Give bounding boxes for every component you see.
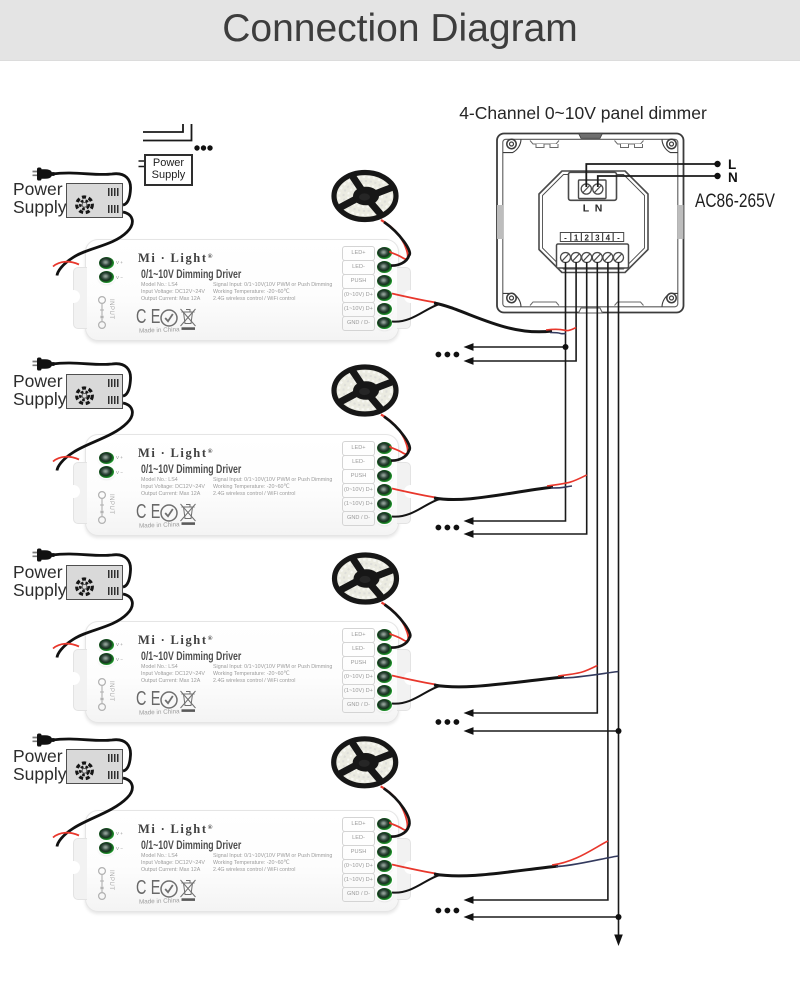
terminal V+ — [99, 828, 114, 840]
dimming driver LS4 #1 — [85, 239, 399, 341]
power supply PS2 body — [66, 374, 123, 409]
terminal LED+ — [377, 442, 392, 454]
mains cord 2 — [52, 363, 131, 396]
mounting tab left — [73, 838, 87, 900]
branch row4 gnd — [472, 916, 619, 918]
input icon — [92, 295, 122, 331]
terminal (1~10V) D+ — [377, 685, 392, 697]
wire minus-right — [618, 262, 620, 937]
LED strip reel 2 — [334, 367, 396, 414]
terminal V- — [99, 842, 114, 854]
mounting tab left — [73, 267, 87, 329]
certification icons — [160, 501, 210, 527]
dimming driver LS4 #2 — [85, 434, 399, 536]
wire ch2 — [472, 262, 587, 534]
arrow row3 b — [464, 727, 474, 735]
label (1~10V) D+ — [342, 497, 375, 512]
power supply PS2 label — [13, 373, 123, 408]
label LED+ — [342, 246, 375, 261]
label (1~10V) D+ — [342, 873, 375, 888]
spec text right — [213, 477, 332, 498]
channel label strip — [560, 233, 623, 242]
terminal V- — [99, 653, 114, 665]
spec text left — [141, 664, 205, 685]
signal gnd tip 1 — [550, 333, 566, 334]
arrowhead down — [614, 935, 623, 947]
terminal V- — [99, 271, 114, 283]
mounting tab left — [73, 649, 87, 711]
mains cord 1 — [52, 173, 131, 205]
signal red tip 3 — [558, 666, 597, 677]
dc cord 1 — [57, 212, 132, 276]
junction row4 — [616, 914, 622, 920]
terminal (1~10V) D+ — [377, 303, 392, 315]
CE mark — [136, 688, 161, 711]
panel top connector tab — [579, 133, 603, 138]
arrow row4 b — [464, 913, 474, 921]
signal pair 1 — [392, 294, 436, 303]
L N terminal block — [569, 172, 617, 200]
certification icons — [160, 688, 210, 714]
dc cord 2 — [57, 403, 132, 471]
label PUSH — [342, 656, 375, 671]
power supply PS1 body — [66, 183, 123, 218]
spec text right — [213, 664, 332, 685]
power supply PS1 label — [13, 181, 123, 216]
mains cord 3 — [52, 554, 131, 587]
mounting tab right — [397, 838, 411, 900]
product title — [141, 651, 241, 663]
LED wire red 4 — [381, 786, 393, 795]
label (0~10V) D+ — [342, 859, 375, 874]
mounting tab right — [397, 649, 411, 711]
terminal PUSH — [377, 846, 392, 858]
label (0~10V) D+ — [342, 670, 375, 685]
signal pair 4 — [392, 865, 436, 874]
LED wire red 2 — [381, 415, 393, 424]
terminal V+ — [99, 639, 114, 651]
product title — [141, 840, 241, 852]
Mi-Light logo — [138, 446, 212, 461]
dc red lead 1 — [53, 262, 79, 267]
LED wire red 1 — [381, 220, 393, 229]
dc red lead 4 — [53, 833, 79, 838]
LED strip reel 4 — [334, 739, 396, 786]
label LED+ — [342, 817, 375, 832]
wire ch1 — [472, 262, 576, 361]
label LED+ — [342, 628, 375, 643]
label LED- — [342, 260, 375, 275]
made in china — [139, 708, 180, 716]
Mi-Light logo — [138, 633, 212, 648]
terminal LED- — [377, 643, 392, 655]
certification icons — [160, 877, 210, 903]
terminal (0~10V) D+ — [377, 860, 392, 872]
mounting tab right — [397, 267, 411, 329]
extra power supply (repetition) box — [144, 154, 193, 187]
power supply PS4 label — [13, 748, 123, 783]
panel side clips — [497, 205, 503, 239]
label (1~10V) D+ — [342, 302, 375, 317]
mains cord 4 — [52, 739, 131, 771]
dc cord 3 — [57, 594, 132, 658]
wire elbow a (to extra supplies) — [143, 124, 183, 132]
label GND / D- — [342, 511, 375, 526]
panel corner screws — [503, 139, 678, 306]
fan 2 — [77, 388, 93, 404]
spec text right — [213, 853, 332, 874]
terminal V- — [99, 466, 114, 478]
label LED- — [342, 831, 375, 846]
LED wire black 4 — [384, 788, 410, 836]
arrow row4 a — [464, 896, 474, 904]
label (1~10V) D+ — [342, 684, 375, 699]
wire ch4 — [472, 262, 608, 900]
input icon — [92, 866, 122, 902]
CE mark — [136, 877, 161, 900]
label LED- — [342, 642, 375, 657]
terminal (0~10V) D+ — [377, 671, 392, 683]
terminal (1~10V) D+ — [377, 498, 392, 510]
terminal LED- — [377, 832, 392, 844]
signal pair 2 — [392, 489, 436, 498]
label PUSH — [342, 274, 375, 289]
label (0~10V) D+ — [342, 288, 375, 303]
plug 3 — [33, 549, 55, 562]
terminal PUSH — [377, 275, 392, 287]
plug 2 — [33, 358, 55, 371]
input icon — [92, 677, 122, 713]
branch row3 gnd — [472, 730, 619, 732]
bottom terminal block — [557, 244, 629, 268]
certification icons — [160, 306, 210, 332]
terminal V+ — [99, 257, 114, 269]
arrow row3 a — [464, 709, 474, 717]
terminal PUSH — [377, 470, 392, 482]
terminal LED+ — [377, 818, 392, 830]
mounting tab left — [73, 462, 87, 524]
panel bottom connector tab — [579, 308, 603, 313]
spec text left — [141, 282, 205, 303]
terminal GND / D- — [377, 317, 392, 329]
power supply PS4 body — [66, 749, 123, 784]
arrow row1 b — [464, 357, 474, 365]
made in china — [139, 521, 180, 529]
LED wire black 1 — [384, 222, 410, 266]
junction row1 — [563, 344, 569, 350]
signal gnd tip 2 — [551, 486, 572, 488]
LED wire red 3 — [382, 603, 394, 612]
Mi-Light logo — [138, 822, 212, 837]
extra supply ticks — [139, 161, 145, 167]
mounting tab right — [397, 462, 411, 524]
terminal (1~10V) D+ — [377, 874, 392, 886]
terminal LED- — [377, 261, 392, 273]
dimming driver LS4 #4 — [85, 810, 399, 912]
ellipsis row1 — [436, 352, 460, 358]
label GND / D- — [342, 698, 375, 713]
LED strip reel 1 — [334, 173, 396, 220]
branch row1 gnd — [472, 346, 566, 348]
label GND / D- — [342, 316, 375, 331]
terminal PUSH — [377, 657, 392, 669]
fan 3 — [77, 579, 93, 595]
arrow row1 a — [464, 343, 474, 351]
ellipsis top — [194, 145, 212, 150]
terminal LED+ — [377, 247, 392, 259]
junction row3 — [616, 728, 622, 734]
terminal GND / D- — [377, 888, 392, 900]
arrow row2 b — [464, 530, 474, 538]
product title — [141, 269, 241, 281]
label PUSH — [342, 469, 375, 484]
fan 4 — [77, 763, 93, 779]
panel top tabs — [530, 141, 644, 306]
panel dimmer body — [497, 134, 684, 313]
wire minus-left — [472, 262, 566, 521]
terminal LED- — [377, 456, 392, 468]
plug 1 — [33, 168, 55, 181]
dc red lead 3 — [53, 644, 79, 649]
dimming driver LS4 #3 — [85, 621, 399, 723]
wire bundle from panel — [472, 262, 619, 937]
spec text left — [141, 853, 205, 874]
terminal (0~10V) D+ — [377, 289, 392, 301]
dc red lead 2 — [53, 457, 79, 462]
power supply PS3 label — [13, 564, 123, 599]
made in china — [139, 897, 180, 905]
input icon — [92, 490, 122, 526]
made in china — [139, 326, 180, 334]
LED wire black 3 — [385, 605, 411, 648]
power supply PS3 body — [66, 565, 123, 600]
CE mark — [136, 306, 161, 329]
signal red tip 2 — [547, 475, 587, 486]
product title — [141, 464, 241, 476]
fan 1 — [77, 197, 93, 213]
spec text right — [213, 282, 332, 303]
ellipsis row3 — [436, 719, 460, 725]
wire N — [598, 176, 717, 187]
signal gnd tip 3 — [562, 672, 619, 679]
dc cord 4 — [57, 778, 132, 847]
label LED- — [342, 455, 375, 470]
LED wire black 2 — [384, 417, 410, 461]
signal red tip 1 — [546, 328, 576, 331]
wire ch3 — [472, 262, 597, 713]
terminal (0~10V) D+ — [377, 484, 392, 496]
signal red tip 4 — [552, 841, 608, 865]
spec text left — [141, 477, 205, 498]
label (0~10V) D+ — [342, 483, 375, 498]
wire L — [586, 164, 717, 187]
terminal GND / D- — [377, 512, 392, 524]
signal pair 3 — [392, 676, 436, 685]
label LED+ — [342, 441, 375, 456]
title bar — [0, 0, 800, 61]
LED strip reel 3 — [335, 555, 397, 602]
plug 4 — [33, 734, 55, 747]
wire elbow b (to extra supplies) — [143, 124, 192, 141]
arrow row2 a — [464, 517, 474, 525]
octagon module — [539, 171, 648, 273]
Mi-Light logo — [138, 251, 212, 266]
terminal GND / D- — [377, 699, 392, 711]
terminal LED+ — [377, 629, 392, 641]
label GND / D- — [342, 887, 375, 902]
label PUSH — [342, 845, 375, 860]
ellipsis row4 — [436, 908, 460, 914]
terminal V+ — [99, 452, 114, 464]
ellipsis row2 — [436, 525, 460, 531]
CE mark — [136, 501, 161, 524]
signal gnd tip 4 — [556, 856, 619, 867]
